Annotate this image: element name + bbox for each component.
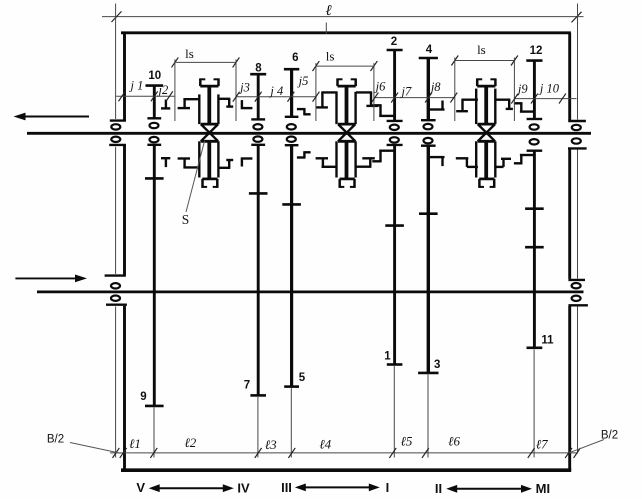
bushing circle below shaft at gear 4 [424,138,433,143]
svg-text:IV: IV [237,481,250,496]
svg-text:j5: j5 [297,74,309,88]
double arrow III-I [303,486,372,488]
extension lines of ls (group 3) [454,58,456,122]
gear 4 hub bar below shaft [421,144,436,146]
sliding cluster 3: lower stem [484,141,488,179]
bushing circle above shaft at gear 12 [530,124,539,129]
double arrow V-IV [157,487,226,489]
right wall lower bearing flange bottom [568,304,588,306]
output rotation arrow (points left) [24,116,89,118]
svg-text:j 1: j 1 [128,78,143,92]
upper shaft (output shaft) [27,132,591,135]
dimension line ls (group 3) [455,60,515,62]
bearing, right wall above lower shaft [572,283,581,288]
extension lines of ls (group 1) [174,59,176,121]
gear 8 hub bar below shaft [251,144,265,146]
mesh rim bar at y=208.7 on column 12/11 [525,207,544,210]
sliding cluster 2: left jaw below shaft [322,166,338,168]
sliding cluster 2: right jaw below shaft [356,165,372,167]
gear 4 hub bar above shaft [421,119,436,121]
j dimension line segment B (j3,j4,j5) [236,96,316,98]
extension lines of ls (group 2) [315,63,317,121]
gear 12 top rim bar [526,59,542,62]
gear 8 top rim bar [250,73,266,76]
tick left of dimension l [112,11,122,22]
sliding cluster 2: top gear cup [338,85,356,88]
svg-text:ℓ1: ℓ1 [129,436,141,451]
extension line below gear 9 [153,407,155,457]
gear 7 body (line down to lower shaft) [257,145,260,396]
housing bottom wall [121,468,571,472]
sliding cluster 3: dog clutch bowtie [478,123,495,126]
svg-text:8: 8 [255,63,262,75]
input rotation arrow (points right) [15,277,77,279]
svg-text:ls: ls [326,49,335,64]
mesh rim bar at y=193.4 on column 8/7 [249,192,268,195]
bearing, left wall below upper shaft [111,137,120,142]
gear 9 bottom rim bar [145,405,164,408]
housing left wall lower segment [123,306,126,471]
left wall upper bearing flange bottom [109,144,126,146]
jaw of gear 10 (right side, below shaft) [165,159,167,167]
svg-text:I: I [386,480,390,495]
gear 7 bottom rim bar [250,394,266,397]
gear 1 body (line down to lower shaft) [393,145,396,365]
leader line B/2 right [570,440,605,453]
extension line below gear 7 [257,397,259,458]
gear 11 body (line down to lower shaft) [533,151,536,348]
sliding cluster 1: right jaw below shaft [218,167,230,169]
housing top wall [121,31,571,34]
gear 3 bottom rim bar [418,372,438,375]
gear 10 body (stem above shaft) [153,86,156,119]
svg-text:12: 12 [530,45,543,57]
svg-text:5: 5 [299,372,306,384]
svg-text:j2: j2 [157,83,169,97]
sliding cluster 1: upper stem [207,86,211,124]
bushing circle above shaft at gear 6 [287,124,296,129]
right wall lower bearing flange top [568,279,585,281]
sliding cluster 1: sleeve side walls below shaft [198,141,200,177]
mesh rim bar at y=225.6 on column 2/1 [385,224,404,227]
bearing, left wall above lower shaft [111,283,120,288]
gear 2 hub bar below shaft [387,144,403,146]
gear 4 body (stem above shaft) [427,58,430,120]
svg-text:ℓ4: ℓ4 [319,437,331,452]
jaw of gear 10 (right side, above shaft) [165,100,167,108]
gear 10 hub bar below shaft [147,144,161,146]
bushing circle below shaft at gear 8 [253,136,262,141]
gear 5 body (line down to lower shaft) [290,145,293,386]
gear 10 hub bar above shaft [147,117,161,119]
extension line left (x=115.6) [115,4,117,120]
svg-text:III: III [281,480,292,495]
j dimension line segment C (j6,j7,j8) [375,97,455,99]
svg-text:j9: j9 [516,82,528,96]
bushing circle below shaft at gear 10 [150,137,159,142]
svg-text:S: S [182,212,190,227]
svg-text:j8: j8 [429,80,441,94]
small tick on housing top [325,23,327,34]
mesh rim bar at y=247.2 on column 12/11 [525,246,544,249]
gear 6 hub bar below shaft [285,144,299,146]
sliding cluster 1: lower stem [207,141,211,179]
svg-text:ℓ6: ℓ6 [448,433,460,448]
bushing circle below shaft at gear 2 [390,137,399,142]
svg-text:j 4: j 4 [268,84,283,98]
gear 8 hub bar above shaft [251,118,265,120]
svg-text:B/2: B/2 [47,433,64,445]
ticks of bottom dimension chain [113,448,120,458]
housing left wall middle segment [123,146,126,275]
svg-text:7: 7 [244,380,250,392]
sliding cluster 2: sleeve side walls above shaft [335,92,337,124]
left wall lower bearing flange bottom [106,304,127,306]
mesh rim bar at y=178.4 on column 10/9 [145,177,164,180]
mesh rim bar at y=213.7 on column 4/3 [419,212,438,215]
jaw of gear 8 (left side, below shaft) [241,160,243,167]
bearing, left wall below lower shaft [111,296,120,301]
gear 6 top rim bar [284,68,299,71]
gear 2 body (stem above shaft) [393,50,396,121]
mesh rim bar at y=204.4 on column 6/5 [282,203,301,206]
leader line to S (shifter sleeve) [186,141,205,212]
housing right wall middle segment [568,149,571,279]
gear 10 top rim bar [146,84,164,87]
dimension line ls (group 1) [175,61,236,63]
sliding cluster 3: right jaw below shaft [494,166,503,168]
sliding cluster 3: top gear cup [477,85,495,88]
housing left wall upper segment [123,33,126,120]
sliding cluster 2: right jaw above shaft [356,91,372,93]
svg-text:1: 1 [384,351,391,363]
housing right wall lower segment [568,306,571,471]
gear 9 body (line down to lower shaft) [153,145,156,406]
sliding cluster 3: left jaw below shaft [467,166,478,168]
sliding cluster 1: dog clutch bowtie [201,123,218,126]
bushing circle above shaft at gear 8 [253,124,262,129]
bearing, right wall below upper shaft [572,138,581,143]
left wall upper bearing flange top [110,119,126,121]
jaw of gear 12 (left side, below shaft) [514,162,523,164]
jaw of gear 4 (right side, above shaft) [429,108,444,110]
gear 11 bottom rim bar [527,346,543,349]
sliding cluster 1: left jaw below shaft [183,166,200,168]
svg-text:j6: j6 [374,80,386,94]
right wall upper bearing flange top [568,120,586,122]
svg-text:2: 2 [391,36,397,48]
gear 5 bottom rim bar [284,385,299,388]
bottom dimension chain line [110,452,578,454]
sliding cluster 2: dog clutch bowtie [338,123,355,126]
svg-text:j3: j3 [238,81,250,95]
sliding cluster 2: lower stem [345,141,349,179]
svg-text:ℓ: ℓ [325,3,331,19]
extension line below gear 1 [393,366,395,458]
sliding cluster 3: sleeve side walls below shaft [475,141,477,177]
sliding cluster 3: upper stem [484,86,488,124]
sliding cluster 1: left jaw above shaft [183,98,200,100]
jaw of gear 6 (right side, above shaft) [297,108,306,110]
svg-text:ℓ7: ℓ7 [536,437,548,452]
j dimension line segment A (j1,j2) [116,95,174,97]
jaw of gear 12 (left side, above shaft) [514,102,523,104]
gear 6 hub bar above shaft [285,116,299,118]
bushing circle below shaft at gear 12 [530,139,539,144]
svg-text:ls: ls [185,46,194,61]
sliding cluster 2: bottom gear cup [340,178,355,181]
svg-text:MI: MI [536,481,550,496]
gear 4 top rim bar [419,57,438,60]
svg-text:ℓ3: ℓ3 [265,437,277,452]
gear 1 bottom rim bar [387,363,403,366]
sliding cluster 2: left jaw above shaft [321,91,337,93]
sliding cluster 3: sleeve side walls above shaft [475,89,477,125]
gear 3 body (line down to lower shaft) [427,146,430,373]
svg-text:ℓ5: ℓ5 [400,433,412,448]
svg-text:ℓ2: ℓ2 [184,435,196,450]
lower shaft (input shaft) [37,290,584,293]
extension line below gear 5 [290,388,292,457]
gear 2 hub bar above shaft [387,120,403,122]
extension line below gear 11 [533,349,535,457]
bearing, right wall above upper shaft [572,125,581,130]
bushing circle above shaft at gear 2 [390,125,399,130]
sliding cluster 1: bottom gear cup [202,178,217,181]
svg-text:6: 6 [292,52,298,64]
svg-text:ls: ls [477,42,486,57]
gear 8 body (stem above shaft) [257,74,260,119]
svg-text:II: II [435,481,442,496]
jaw of gear 8 (left side, above shaft) [241,100,243,107]
sliding cluster 2: upper stem [345,86,349,124]
svg-text:j7: j7 [400,85,412,99]
j dimension line segment D (j9,j10) [515,98,577,100]
bushing circle below shaft at gear 6 [287,137,296,142]
leader line B/2 left [70,443,121,454]
gear 2 top rim bar [387,49,403,52]
svg-text:10: 10 [148,70,161,82]
sliding cluster 3: bottom gear cup [479,178,494,181]
svg-text:3: 3 [434,359,440,371]
double arrow II-MI [454,488,524,490]
jaw of gear 2 (left side, below shaft) [372,160,381,162]
housing right wall upper segment [568,33,571,120]
sliding cluster 3: right jaw above shaft [494,98,510,100]
gear 12 hub bar below shaft [527,149,543,151]
sliding cluster 1: sleeve side walls above shaft [198,94,200,124]
left wall lower bearing flange top [105,274,126,276]
tick right of dimension l [572,12,582,23]
gear 6 body (stem above shaft) [290,69,293,117]
svg-text:9: 9 [140,391,146,403]
dimension line l (overall length), top [102,16,584,18]
sliding cluster 1: top gear cup [200,85,218,88]
sliding cluster 3: left jaw above shaft [461,98,478,100]
jaw of gear 4 (right side, below shaft) [429,156,444,158]
svg-text:4: 4 [426,44,433,56]
extension line below gear 3 [427,374,429,457]
bearing, right wall below lower shaft [572,296,581,301]
svg-text:V: V [136,480,145,495]
jaw of gear 6 (right side, below shaft) [297,156,306,158]
bushing circle above shaft at gear 10 [150,123,159,128]
sliding cluster 1: right jaw above shaft [218,98,230,100]
dimension line ls (group 2) [316,65,374,67]
sliding cluster 2: sleeve side walls below shaft [335,141,337,177]
bearing, left wall above upper shaft [111,124,120,129]
svg-text:11: 11 [541,335,554,347]
gear 12 hub bar above shaft [527,118,543,120]
gear 12 body (stem above shaft) [533,61,536,119]
jaw of gear 2 (left side, above shaft) [372,104,381,106]
right wall upper bearing flange bottom [568,147,587,149]
extension line right (x=577.5) [577,4,579,120]
svg-text:j 10: j 10 [538,82,560,96]
bushing circle above shaft at gear 4 [424,124,433,129]
